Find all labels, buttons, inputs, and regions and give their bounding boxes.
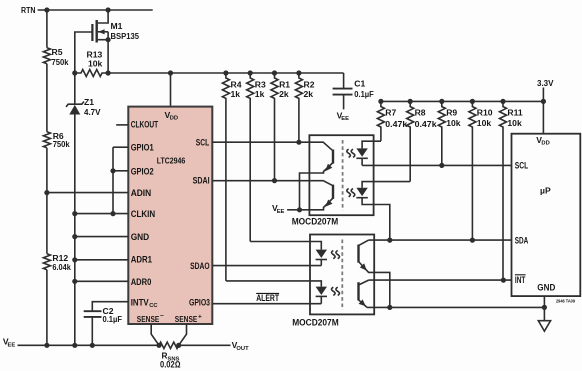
capacitor C1 bbox=[333, 73, 374, 109]
wire 3.3V rail bbox=[381, 100, 544, 102]
wire VDD pin column bbox=[170, 73, 172, 107]
node junction R12/VEE bbox=[44, 343, 49, 348]
wire ADR0 bbox=[75, 280, 129, 282]
wire uP INT row bbox=[369, 279, 512, 281]
svg-text:SDAO: SDAO bbox=[190, 261, 210, 271]
wire R5 to R6 bbox=[46, 64, 48, 132]
svg-text:750k: 750k bbox=[52, 57, 69, 67]
wire RTN to R5 bbox=[46, 10, 48, 48]
wire ADR1 bbox=[75, 259, 129, 261]
svg-text:0.1µF: 0.1µF bbox=[354, 89, 374, 99]
wire GPIO1 bbox=[113, 146, 128, 148]
LED U2A (right side of opto1) bbox=[356, 141, 381, 165]
svg-text:BSP135: BSP135 bbox=[111, 31, 140, 41]
node junction C2/VEE bbox=[90, 343, 95, 348]
wire uP GND rail bbox=[367, 306, 544, 308]
svg-text:SENSE: SENSE bbox=[137, 314, 160, 324]
svg-text:ADR1: ADR1 bbox=[131, 255, 152, 265]
svg-text:+: + bbox=[198, 314, 202, 321]
resistor R12 bbox=[43, 254, 50, 270]
optocoupler U3 MOCD207M box bbox=[310, 235, 374, 315]
light arrows U3B bbox=[332, 287, 336, 295]
phototransistor U2A bbox=[300, 150, 334, 210]
wire VDD rail bbox=[108, 72, 344, 74]
svg-text:−: − bbox=[160, 313, 164, 320]
wire VEE rail bbox=[18, 344, 160, 346]
wire GPIO2 bbox=[113, 170, 128, 172]
wire uP SDA row bbox=[369, 239, 512, 241]
svg-text:10k: 10k bbox=[507, 118, 522, 128]
resistor R2 bbox=[295, 70, 314, 142]
node junction Z1 column GND bbox=[72, 234, 77, 239]
capacitor C2 bbox=[84, 306, 122, 345]
svg-text:0.47k: 0.47k bbox=[415, 119, 437, 129]
ground symbol bbox=[538, 321, 550, 332]
svg-text:MOCD207M: MOCD207M bbox=[292, 217, 339, 227]
svg-text:R7: R7 bbox=[385, 108, 396, 118]
node junction RTN/M1 drain bbox=[106, 7, 111, 12]
wire R6 to R12, ADIN tap bbox=[46, 148, 48, 254]
svg-text:GPIO3: GPIO3 bbox=[189, 298, 210, 308]
svg-text:ALERT: ALERT bbox=[256, 293, 279, 303]
svg-text:SCL: SCL bbox=[515, 161, 529, 171]
node junction uP GND bbox=[542, 305, 547, 310]
node junction R1/SDAI bbox=[272, 178, 277, 183]
svg-text:SDAI: SDAI bbox=[193, 176, 210, 186]
svg-text:R8: R8 bbox=[415, 108, 426, 118]
IC U1 LTC2946 body bbox=[128, 107, 212, 324]
svg-text:EE: EE bbox=[277, 209, 285, 215]
wire CLKOUT stub bbox=[116, 124, 128, 126]
svg-text:MOCD207M: MOCD207M bbox=[292, 317, 339, 327]
wire SCL row (chip to opto1) bbox=[212, 142, 332, 150]
node junction GPIO2 tie bbox=[110, 168, 115, 173]
wire GPIO3 row (chip to opto2 LED2 cathode) bbox=[212, 303, 321, 305]
phototransistor U3B bbox=[359, 280, 369, 307]
resistor R5 bbox=[43, 48, 50, 64]
node junction Z1 column VEE bbox=[72, 343, 77, 348]
svg-text:2946 TA09: 2946 TA09 bbox=[556, 298, 575, 303]
light arrows U3A bbox=[332, 251, 336, 259]
svg-text:10k: 10k bbox=[446, 118, 461, 128]
wire INTVCC bbox=[92, 302, 128, 312]
svg-text:GPIO2: GPIO2 bbox=[131, 167, 154, 177]
svg-text:DD: DD bbox=[170, 116, 178, 122]
wire R4 to LED U3B anode bbox=[226, 281, 321, 287]
svg-text:INTV: INTV bbox=[131, 297, 149, 307]
svg-text:LTC2946: LTC2946 bbox=[157, 156, 186, 166]
svg-text:1k: 1k bbox=[231, 89, 241, 99]
svg-text:6.04k: 6.04k bbox=[52, 262, 71, 272]
LED U3B bbox=[316, 287, 327, 304]
node junction R9/SCL bbox=[439, 163, 444, 168]
node junction SDA/opto column bbox=[387, 238, 392, 243]
optocoupler U3 dashed divider bbox=[341, 240, 343, 311]
svg-text:1k: 1k bbox=[255, 89, 265, 99]
svg-text:0.02Ω: 0.02Ω bbox=[160, 360, 181, 370]
svg-text:CC: CC bbox=[149, 303, 158, 309]
wire 3.3V feed bbox=[542, 88, 544, 134]
resistor R1 bbox=[271, 70, 290, 180]
svg-text:SDA: SDA bbox=[515, 236, 529, 246]
svg-text:M1: M1 bbox=[111, 21, 123, 31]
wire R3 to LED U3A anode bbox=[250, 242, 321, 250]
svg-text:GPIO1: GPIO1 bbox=[131, 143, 154, 153]
IC U4 microprocessor box bbox=[512, 134, 581, 296]
light arrows U2B bbox=[347, 189, 351, 197]
svg-text:Z1: Z1 bbox=[84, 97, 94, 107]
wire GND bbox=[75, 236, 129, 238]
light arrows U2A bbox=[347, 149, 351, 157]
svg-text:ADR0: ADR0 bbox=[131, 277, 152, 287]
node junction VDD pin column bbox=[168, 70, 173, 75]
svg-text:750k: 750k bbox=[53, 139, 70, 149]
svg-text:CLKIN: CLKIN bbox=[131, 209, 156, 219]
svg-text:10k: 10k bbox=[477, 118, 492, 128]
node junction emitter/GND bbox=[387, 305, 392, 310]
svg-text:R5: R5 bbox=[52, 47, 63, 57]
resistor R10 bbox=[469, 99, 493, 240]
optocoupler U2 MOCD207M box bbox=[309, 135, 373, 215]
node junction emitters/VEE bbox=[297, 207, 302, 212]
wire to VOUT bbox=[179, 344, 231, 346]
wire RTN top rail bbox=[38, 9, 153, 11]
wire ADIN bbox=[47, 192, 128, 194]
resistor R9 bbox=[438, 99, 460, 166]
svg-text:µP: µP bbox=[540, 186, 551, 196]
svg-text:3.3V: 3.3V bbox=[537, 78, 554, 88]
svg-text:INT: INT bbox=[515, 275, 526, 285]
pin SENSE- stub bbox=[151, 324, 159, 345]
svg-text:RTN: RTN bbox=[21, 5, 36, 15]
svg-text:C1: C1 bbox=[354, 79, 365, 89]
wire uP GND stub bbox=[543, 296, 545, 321]
node junction RTN/R5 bbox=[44, 7, 49, 12]
wire SDAO row (chip to opto2 LED1 cathode) bbox=[212, 265, 321, 267]
svg-text:R10: R10 bbox=[477, 108, 493, 118]
svg-text:EE: EE bbox=[341, 116, 349, 122]
svg-text:R3: R3 bbox=[255, 80, 266, 90]
svg-text:4.7V: 4.7V bbox=[84, 107, 101, 117]
resistor R3 bbox=[247, 70, 266, 241]
svg-text:GND: GND bbox=[537, 283, 555, 293]
svg-text:CLKOUT: CLKOUT bbox=[131, 120, 159, 130]
resistor R13 bbox=[72, 50, 110, 77]
node junction R11/INT bbox=[501, 278, 506, 283]
node junction R10/SDA bbox=[470, 238, 475, 243]
svg-text:ADIN: ADIN bbox=[131, 188, 152, 198]
resistor R11 bbox=[500, 99, 523, 280]
svg-text:OUT: OUT bbox=[236, 346, 249, 352]
resistor R6 bbox=[43, 132, 50, 148]
svg-text:GND: GND bbox=[131, 232, 150, 242]
LED U2B (right side of opto1) bbox=[356, 182, 410, 241]
svg-text:10k: 10k bbox=[88, 59, 103, 69]
svg-text:2k: 2k bbox=[279, 89, 289, 99]
node junction CLKIN tie bbox=[110, 211, 115, 216]
node junction ADIN bbox=[44, 190, 49, 195]
node junction R2/SCL bbox=[296, 140, 301, 145]
resistor R4 bbox=[222, 70, 241, 281]
wire uP SCL row bbox=[362, 164, 511, 166]
LED U3A bbox=[316, 250, 327, 266]
transistor M1 bbox=[75, 10, 139, 73]
svg-text:0.47k: 0.47k bbox=[385, 119, 407, 129]
resistor R7 bbox=[377, 99, 407, 141]
svg-text:SENSE: SENSE bbox=[175, 314, 198, 324]
phototransistor U3A bbox=[359, 240, 390, 307]
svg-text:2k: 2k bbox=[304, 89, 314, 99]
wire CLKIN bbox=[75, 213, 129, 215]
optocoupler U2 dashed divider bbox=[342, 140, 344, 211]
wire R12 to VEE rail bbox=[46, 270, 48, 346]
svg-text:R1: R1 bbox=[279, 80, 290, 90]
node junction Z1 column CLKIN bbox=[72, 211, 77, 216]
node junction Z1 column ADR1 bbox=[72, 257, 77, 262]
svg-text:EE: EE bbox=[8, 342, 16, 348]
wire GPIO1-GPIO2-CLKIN tie column bbox=[112, 147, 114, 213]
wire SDAI row (chip to opto1) bbox=[212, 181, 332, 186]
node junction 3.3V/VDD bbox=[541, 99, 546, 104]
svg-text:R4: R4 bbox=[231, 80, 242, 90]
svg-text:R11: R11 bbox=[507, 108, 523, 118]
zener Z1 bbox=[66, 73, 101, 345]
resistor RSNS bbox=[156, 342, 181, 369]
svg-text:SCL: SCL bbox=[196, 137, 210, 147]
svg-text:0.1µF: 0.1µF bbox=[103, 314, 123, 324]
resistor R8 bbox=[407, 99, 437, 182]
svg-text:DD: DD bbox=[541, 141, 549, 147]
phototransistor U2B bbox=[287, 185, 333, 210]
svg-text:R9: R9 bbox=[446, 108, 457, 118]
node junction Z1 column ADR0 bbox=[72, 279, 77, 284]
pin SENSE+ stub bbox=[179, 324, 187, 345]
svg-text:R2: R2 bbox=[304, 80, 315, 90]
